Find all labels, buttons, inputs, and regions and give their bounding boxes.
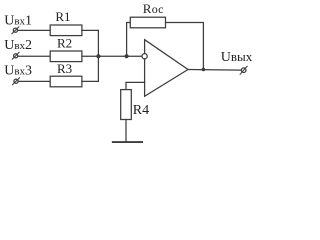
terminal output — [241, 68, 246, 73]
terminal input 1 — [13, 28, 17, 32]
ground — [113, 141, 142, 143]
wire R1 to bus — [82, 29, 99, 31]
wire output — [188, 69, 241, 72]
svg-text:R1: R1 — [55, 9, 70, 24]
svg-text:R2: R2 — [57, 35, 72, 50]
wire input 2 — [18, 55, 50, 57]
wire feedback left leg — [127, 23, 131, 57]
svg-text:R4: R4 — [133, 103, 149, 118]
wire input 1 — [18, 29, 51, 31]
junction output node — [202, 68, 206, 72]
inverting input bubble — [142, 54, 147, 59]
svg-text:R3: R3 — [57, 61, 72, 76]
svg-text:ос: ос — [152, 2, 164, 16]
terminal input 2 — [14, 54, 18, 58]
resistor R3 — [50, 76, 82, 87]
svg-text:Uвых: Uвых — [221, 49, 253, 65]
svg-text:R: R — [143, 1, 152, 16]
terminal input 3 — [14, 79, 18, 83]
junction bus/summing node — [96, 54, 100, 58]
junction feedback tap — [125, 54, 129, 58]
wire feedback right leg — [166, 23, 204, 70]
op-amp U1 triangle — [145, 40, 188, 97]
wire summing line R2 to op-amp — [82, 55, 142, 57]
wire non-inverting input to R4 — [126, 82, 145, 89]
resistor Roc — [130, 17, 165, 28]
wire R4 to ground — [125, 120, 127, 142]
wire R3 to bus — [82, 80, 99, 82]
svg-text:Uвх2: Uвх2 — [4, 38, 32, 53]
svg-text:Uвх1: Uвх1 — [4, 14, 32, 29]
resistor R2 — [50, 51, 82, 62]
resistor R1 — [50, 25, 82, 36]
resistor R4 — [121, 90, 132, 120]
wire input 3 — [18, 80, 50, 82]
svg-text:Uвх3: Uвх3 — [4, 63, 32, 78]
wire summing bus vertical — [97, 30, 99, 81]
